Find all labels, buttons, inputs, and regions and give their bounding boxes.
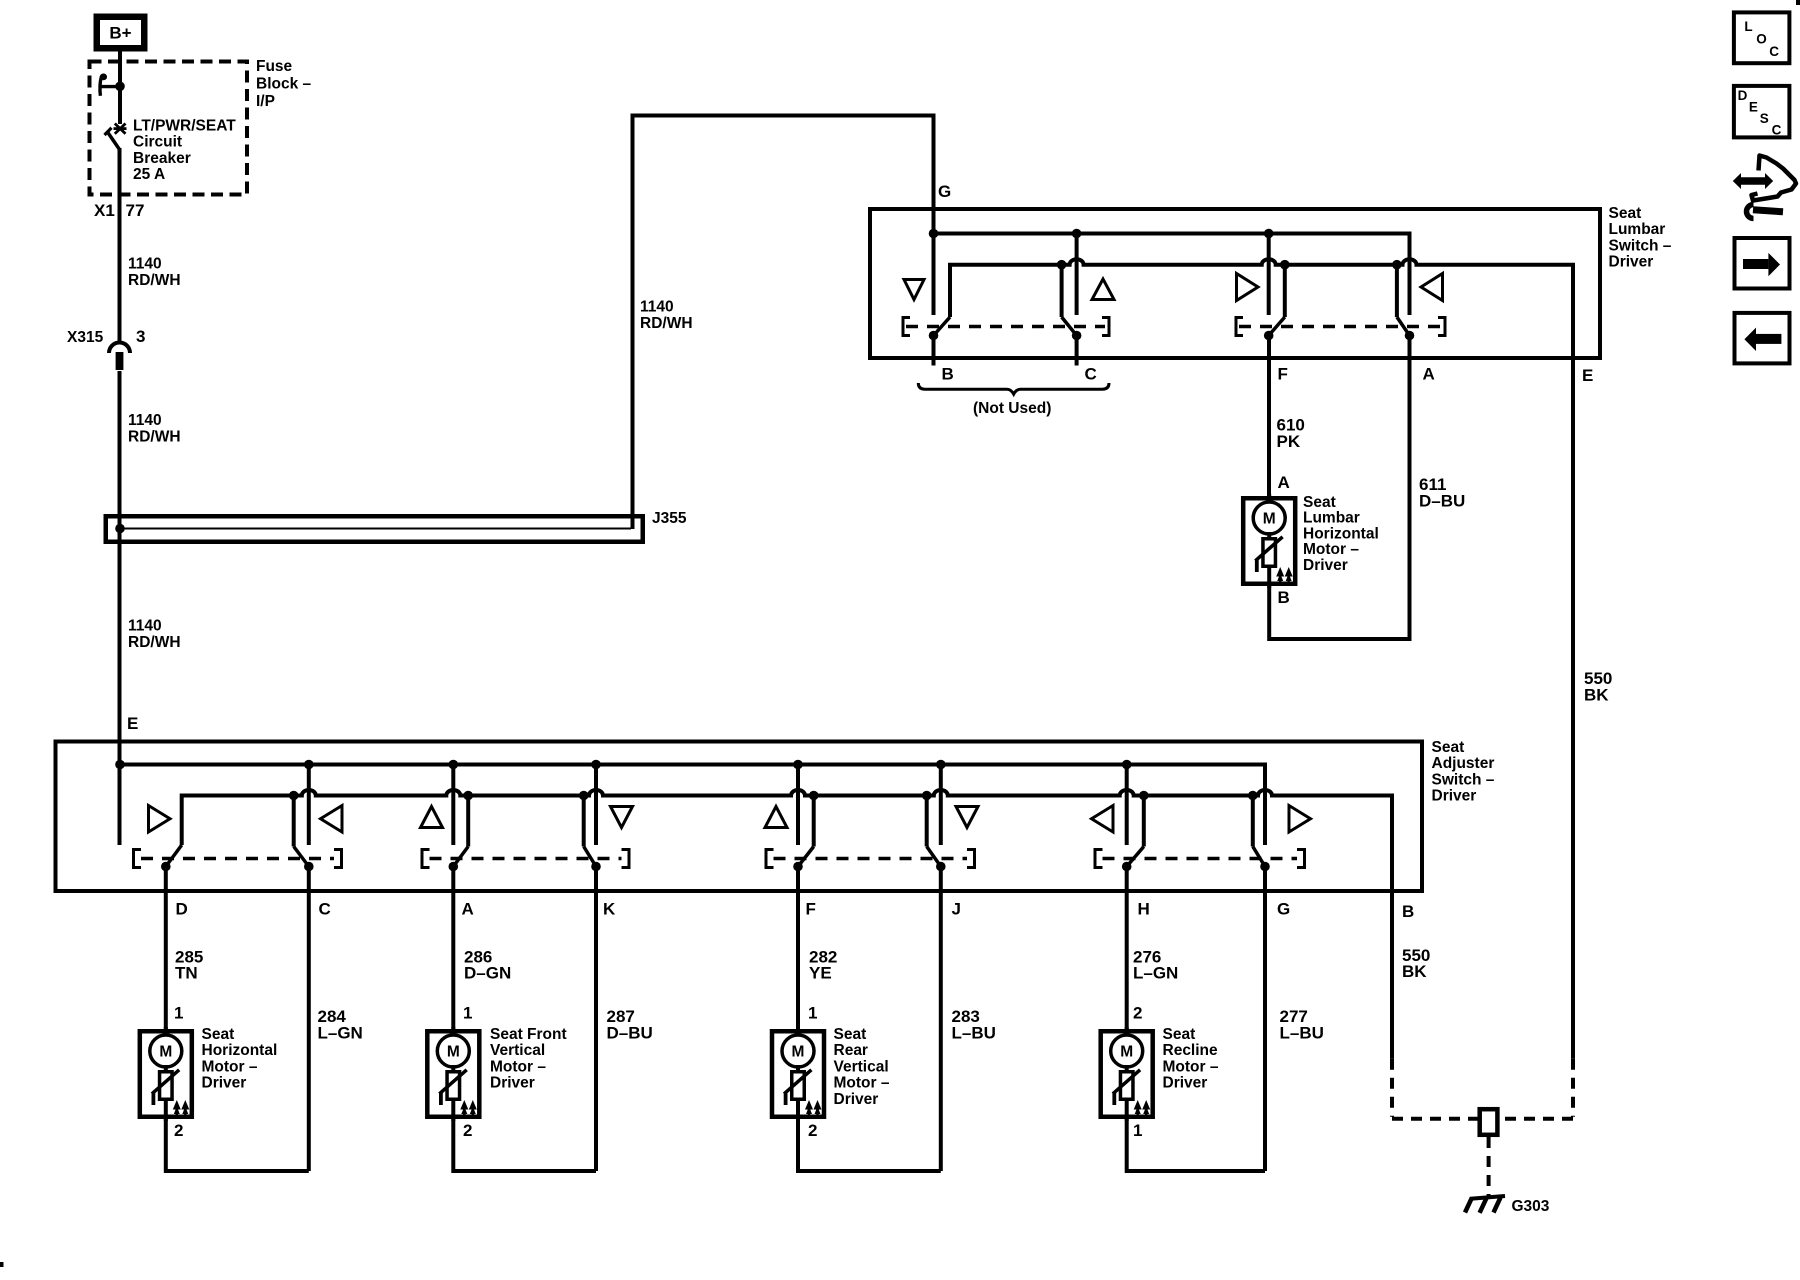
svg-text:L–GN: L–GN: [318, 1024, 363, 1043]
svg-text:(Not Used): (Not Used): [973, 400, 1051, 417]
svg-text:A: A: [1423, 365, 1435, 384]
svg-text:Horizontal: Horizontal: [1303, 525, 1379, 542]
svg-text:Driver: Driver: [834, 1091, 879, 1108]
svg-text:Seat Front: Seat Front: [490, 1026, 567, 1043]
svg-text:Driver: Driver: [1163, 1075, 1208, 1092]
svg-text:Driver: Driver: [202, 1075, 247, 1092]
svg-text:D–BU: D–BU: [607, 1024, 653, 1043]
svg-text:C: C: [1085, 365, 1097, 384]
svg-text:Motor –: Motor –: [834, 1075, 890, 1092]
svg-text:RD/WH: RD/WH: [640, 315, 693, 332]
svg-text:B+: B+: [109, 24, 131, 43]
svg-text:I/P: I/P: [256, 93, 275, 110]
svg-text:D: D: [176, 900, 188, 919]
svg-text:A: A: [462, 900, 474, 919]
svg-text:Adjuster: Adjuster: [1432, 755, 1495, 772]
svg-text:D–GN: D–GN: [464, 964, 511, 983]
svg-text:X1: X1: [94, 201, 115, 220]
svg-text:B: B: [1278, 588, 1290, 607]
svg-text:J355: J355: [652, 510, 687, 527]
svg-text:2: 2: [1133, 1004, 1142, 1023]
svg-text:L–BU: L–BU: [1280, 1024, 1324, 1043]
svg-text:Motor –: Motor –: [490, 1058, 546, 1075]
svg-text:BK: BK: [1584, 686, 1609, 705]
svg-text:E: E: [127, 714, 138, 733]
svg-text:H: H: [1138, 900, 1150, 919]
svg-text:Circuit: Circuit: [133, 134, 182, 151]
svg-text:G303: G303: [1512, 1198, 1550, 1215]
svg-text:RD/WH: RD/WH: [128, 634, 181, 651]
svg-text:LT/PWR/SEAT: LT/PWR/SEAT: [133, 118, 236, 135]
svg-text:1140: 1140: [128, 412, 162, 429]
svg-text:Motor –: Motor –: [1303, 541, 1359, 558]
svg-text:Driver: Driver: [1303, 557, 1348, 574]
svg-text:Driver: Driver: [1432, 788, 1477, 805]
svg-text:Seat: Seat: [834, 1026, 867, 1043]
svg-text:1: 1: [808, 1004, 817, 1023]
svg-text:77: 77: [126, 201, 145, 220]
svg-text:F: F: [1278, 365, 1288, 384]
svg-text:Driver: Driver: [490, 1075, 535, 1092]
svg-text:1140: 1140: [128, 256, 162, 273]
svg-text:Lumbar: Lumbar: [1609, 221, 1666, 238]
svg-text:2: 2: [174, 1121, 183, 1140]
svg-text:1: 1: [463, 1004, 472, 1023]
svg-text:Switch –: Switch –: [1432, 771, 1495, 788]
svg-text:Seat: Seat: [1303, 494, 1336, 511]
svg-text:1: 1: [174, 1004, 183, 1023]
svg-text:K: K: [603, 900, 616, 919]
svg-text:Vertical: Vertical: [834, 1058, 889, 1075]
svg-text:Fuse: Fuse: [256, 58, 293, 75]
svg-text:Seat: Seat: [1609, 205, 1642, 222]
svg-text:X315: X315: [67, 329, 104, 346]
svg-text:PK: PK: [1277, 432, 1301, 451]
svg-text:J: J: [952, 900, 961, 919]
svg-text:Seat: Seat: [202, 1026, 235, 1043]
svg-text:Motor –: Motor –: [1163, 1058, 1219, 1075]
svg-text:Seat: Seat: [1163, 1026, 1196, 1043]
svg-text:S: S: [1760, 111, 1769, 126]
svg-text:O: O: [1756, 32, 1767, 47]
svg-text:Vertical: Vertical: [490, 1042, 545, 1059]
svg-text:1140: 1140: [128, 618, 162, 635]
svg-text:25 A: 25 A: [133, 166, 165, 183]
svg-text:C: C: [1772, 123, 1782, 138]
svg-text:2: 2: [463, 1121, 472, 1140]
svg-text:D–BU: D–BU: [1419, 492, 1465, 511]
svg-text:3: 3: [136, 327, 145, 346]
svg-text:TN: TN: [175, 964, 198, 983]
svg-text:G: G: [1277, 900, 1290, 919]
svg-text:RD/WH: RD/WH: [128, 429, 181, 446]
svg-text:1: 1: [1133, 1121, 1142, 1140]
svg-text:L–BU: L–BU: [952, 1024, 996, 1043]
svg-text:Driver: Driver: [1609, 254, 1654, 271]
svg-text:D: D: [1738, 88, 1748, 103]
svg-text:G: G: [938, 182, 951, 201]
svg-text:E: E: [1749, 100, 1758, 115]
svg-text:C: C: [319, 900, 331, 919]
svg-text:Seat: Seat: [1432, 739, 1465, 756]
svg-text:BK: BK: [1402, 962, 1427, 981]
svg-text:C: C: [1769, 44, 1779, 59]
svg-text:Switch –: Switch –: [1609, 237, 1672, 254]
svg-text:A: A: [1278, 473, 1290, 492]
svg-text:Rear: Rear: [834, 1042, 868, 1059]
svg-text:B: B: [942, 365, 954, 384]
svg-text:RD/WH: RD/WH: [128, 272, 181, 289]
svg-text:L–GN: L–GN: [1133, 964, 1178, 983]
svg-text:2: 2: [808, 1121, 817, 1140]
svg-text:Motor –: Motor –: [202, 1058, 258, 1075]
svg-text:B: B: [1402, 902, 1414, 921]
svg-text:Block –: Block –: [256, 76, 312, 93]
svg-text:Horizontal: Horizontal: [202, 1042, 278, 1059]
svg-text:Lumbar: Lumbar: [1303, 510, 1360, 527]
svg-text:F: F: [806, 900, 816, 919]
svg-text:L: L: [1744, 19, 1752, 34]
svg-text:Breaker: Breaker: [133, 150, 191, 167]
svg-text:YE: YE: [809, 964, 832, 983]
svg-text:Recline: Recline: [1163, 1042, 1219, 1059]
svg-text:1140: 1140: [640, 299, 674, 316]
svg-text:E: E: [1582, 366, 1593, 385]
